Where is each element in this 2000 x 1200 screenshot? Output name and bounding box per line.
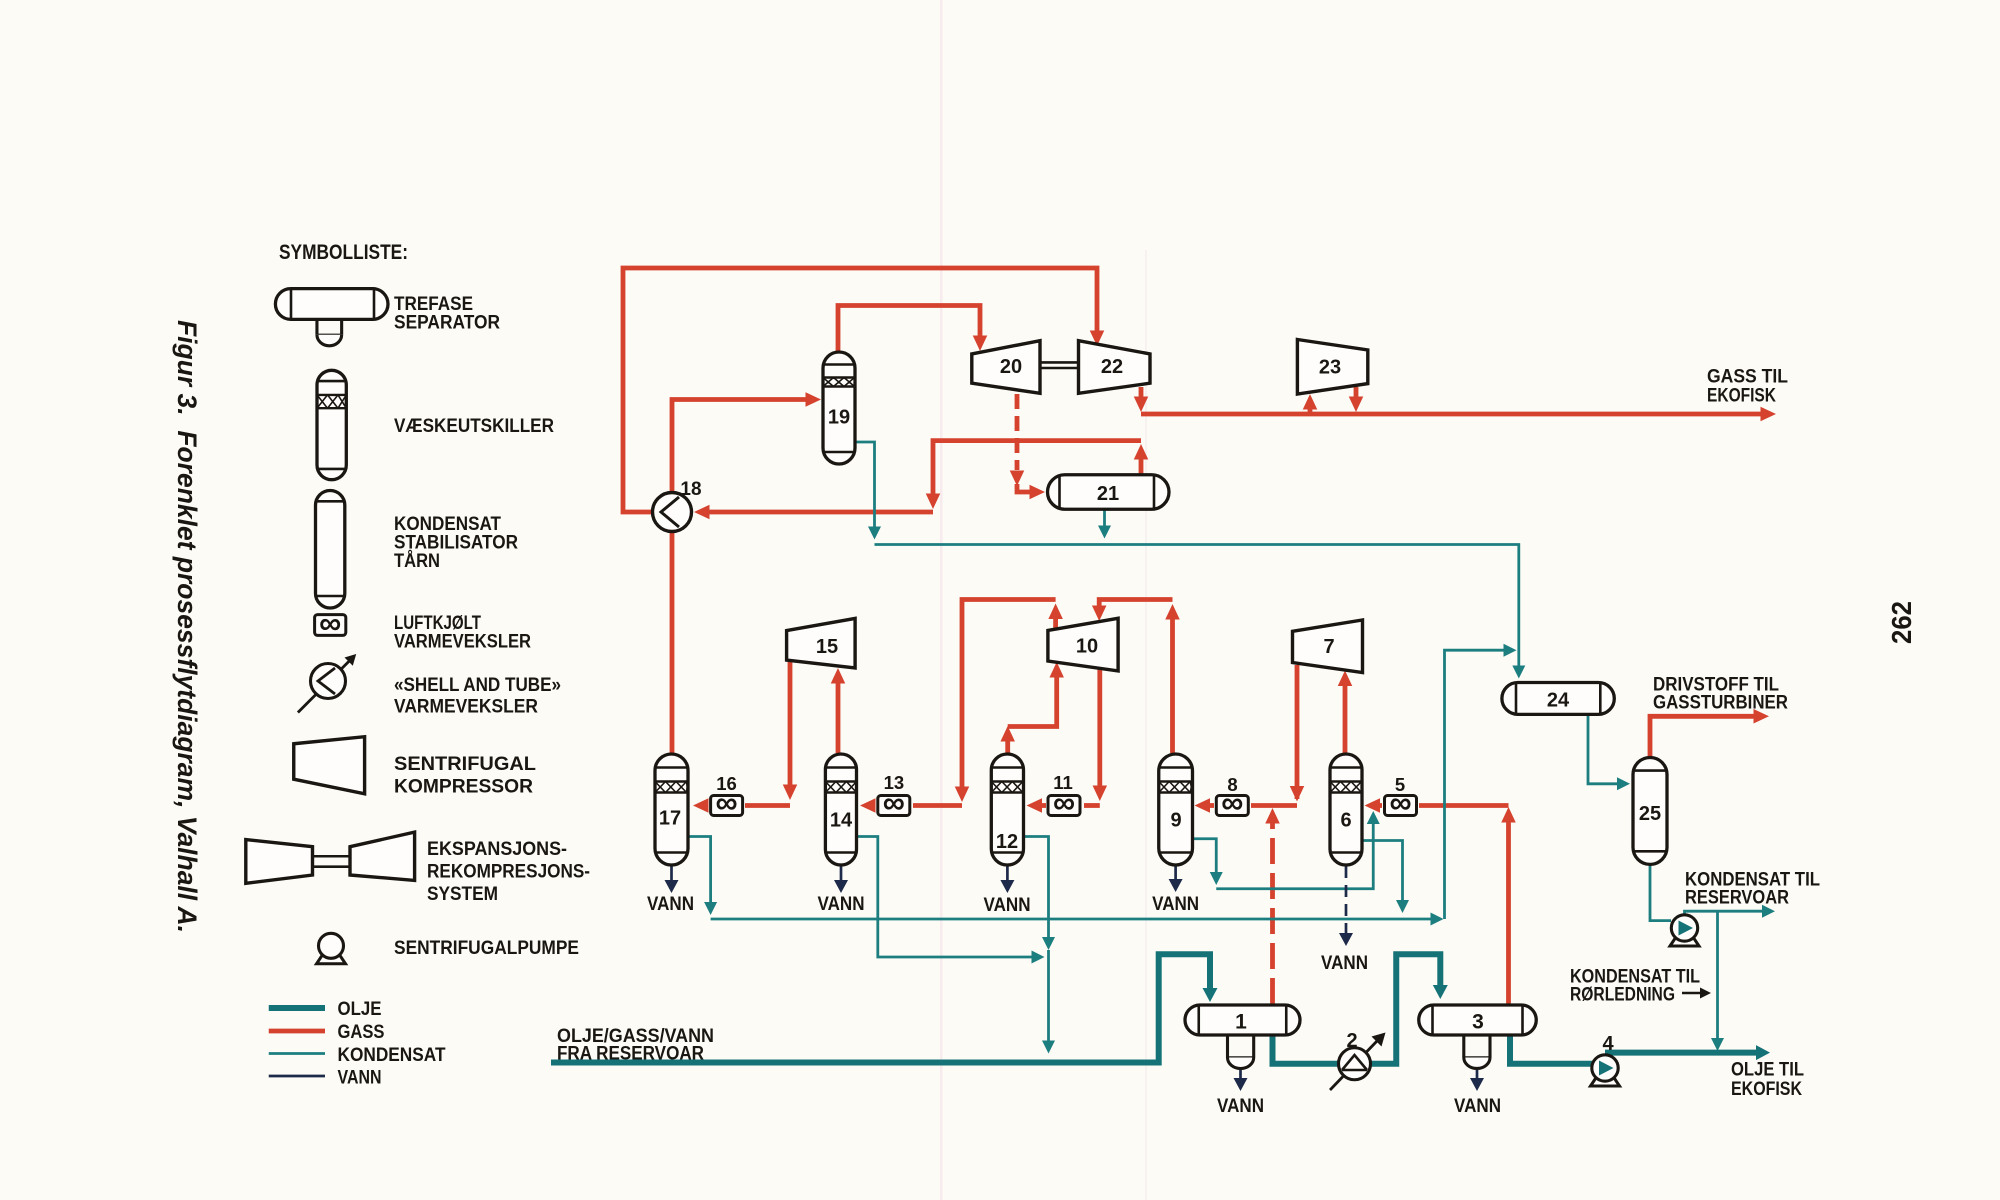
wire: condensate header under scrubbers bbox=[711, 644, 1517, 926]
expander 20 bbox=[972, 341, 1040, 394]
wire: separator 3 oil to pump 4 bbox=[1510, 1036, 1593, 1064]
wire: compressor 10 discharge through cooler 13 to vessel 14 bbox=[860, 600, 1063, 813]
compressor 15 bbox=[787, 618, 856, 668]
svg-text:1: 1 bbox=[1235, 1011, 1247, 1034]
svg-text:SEPARATOR: SEPARATOR bbox=[394, 313, 500, 334]
wire: vessel 24 condensate to vessel 25 bbox=[1588, 714, 1630, 790]
svg-text:4: 4 bbox=[1602, 1033, 1614, 1055]
svg-text:25: 25 bbox=[1639, 803, 1661, 825]
wire: vessel 9 condensate drain to vessel 6 inlet bbox=[1193, 811, 1380, 889]
wire: vessel 9 water outlet bbox=[1169, 865, 1183, 892]
svg-text:KOMPRESSOR: KOMPRESSOR bbox=[394, 777, 533, 798]
wire: separator 3 water outlet bbox=[1470, 1068, 1484, 1091]
wire: vessel 17 water outlet bbox=[665, 864, 679, 893]
wire: gas riser vessel 19 to expander 20 bbox=[838, 306, 987, 353]
wire: condensate header to vessel 24 bbox=[875, 545, 1526, 679]
wire: vessel 6 condensate drain to header bbox=[1362, 841, 1409, 914]
svg-text:8: 8 bbox=[1227, 774, 1237, 795]
svg-text:RØRLEDNING: RØRLEDNING bbox=[1570, 985, 1675, 1006]
label VAESKEUTSKILLER bbox=[394, 416, 554, 437]
svg-text:13: 13 bbox=[884, 772, 905, 793]
shaft 20-22 bbox=[1040, 362, 1079, 368]
svg-text:SENTRIFUGAL: SENTRIFUGAL bbox=[394, 754, 536, 775]
wire: compressor 15 discharge through cooler 16 to vessel 17 bbox=[693, 662, 797, 813]
wire: gas exchanger 18 bottom to vessel 17 bbox=[670, 531, 675, 753]
air cooler 11 bbox=[1048, 772, 1080, 820]
legend title SYMBOLLISTE bbox=[279, 241, 408, 264]
wire: vessel 21 vapour to exchanger 18 bbox=[694, 441, 1148, 520]
vessel 14 bbox=[825, 754, 856, 865]
wire: GASS legend line bbox=[269, 1029, 325, 1034]
label VANN under separator 1 bbox=[1217, 1095, 1264, 1117]
svg-text:VARMEVEKSLER: VARMEVEKSLER bbox=[394, 697, 538, 718]
svg-text:5: 5 bbox=[1395, 774, 1405, 795]
wire: KONDENSAT legend line bbox=[269, 1052, 325, 1055]
wire: vessel 25 fuel gas to gas turbines bbox=[1650, 709, 1769, 757]
svg-text:TÅRN: TÅRN bbox=[394, 551, 440, 572]
svg-text:2: 2 bbox=[1346, 1030, 1357, 1052]
wire: recompressor 22 outlet gas header to Ekofisk bbox=[1134, 387, 1776, 421]
svg-text:SYMBOLLISTE:: SYMBOLLISTE: bbox=[279, 241, 408, 264]
label KONDENSAT bbox=[338, 1045, 446, 1066]
svg-text:11: 11 bbox=[1053, 772, 1073, 793]
legend symbol: luftkjoelt varmeveksler bbox=[315, 605, 346, 640]
svg-text:VANN: VANN bbox=[1152, 893, 1199, 915]
svg-text:VANN: VANN bbox=[1217, 1095, 1264, 1117]
svg-text:REKOMPRESJONS-: REKOMPRESJONS- bbox=[427, 862, 590, 883]
svg-text:16: 16 bbox=[716, 773, 737, 794]
svg-text:FRA RESERVOAR: FRA RESERVOAR bbox=[557, 1044, 704, 1065]
legend symbol: sentrifugalpumpe bbox=[317, 933, 346, 964]
wire: gas from exchanger 18 to recompressor 22 (top loop) bbox=[623, 268, 1104, 512]
wire: vessel 6 water outlet (dashed) bbox=[1339, 866, 1353, 946]
svg-text:RESERVOAR: RESERVOAR bbox=[1685, 888, 1789, 909]
label KONDENSAT STABILISATOR TAARN bbox=[394, 514, 518, 572]
wire: vessel 6 vapour riser to compressor 7 bbox=[1338, 671, 1353, 754]
svg-text:GASS TIL: GASS TIL bbox=[1707, 367, 1788, 388]
svg-text:VARMEVEKSLER: VARMEVEKSLER bbox=[394, 632, 531, 653]
svg-text:10: 10 bbox=[1076, 636, 1098, 658]
svg-text:15: 15 bbox=[816, 636, 838, 658]
label KONDENSAT TIL RESERVOAR bbox=[1685, 870, 1820, 909]
svg-text:KONDENSAT: KONDENSAT bbox=[338, 1045, 446, 1066]
label OLJE bbox=[338, 999, 382, 1020]
label EKSPANSJONS-REKOMPRESJONS-SYSTEM bbox=[427, 839, 590, 905]
page number 262 bbox=[1886, 601, 1917, 644]
legend symbol: vaeskeutskiller bbox=[317, 370, 346, 479]
label LUFTKJOELT VARMEVEKSLER bbox=[394, 613, 531, 653]
svg-text:262: 262 bbox=[1886, 601, 1917, 644]
vessel 19 bbox=[823, 352, 855, 464]
svg-text:18: 18 bbox=[680, 479, 701, 500]
wire: vessel 14 water outlet bbox=[834, 864, 848, 893]
label OLJE/GASS/VANN FRA RESERVOAR bbox=[557, 1026, 714, 1065]
pump 4 bbox=[1591, 1033, 1620, 1086]
compressor 23 bbox=[1297, 340, 1367, 395]
label DRIVSTOFF TIL GASSTURBINER bbox=[1653, 675, 1788, 714]
air cooler 13 bbox=[878, 772, 910, 820]
svg-text:VANN: VANN bbox=[984, 894, 1031, 916]
wire: oil/gas/water feed from reservoir to separator 1 bbox=[551, 954, 1218, 1062]
wire: compressor 7 discharge through cooler 8 to vessel 9 bbox=[1195, 665, 1305, 813]
svg-text:22: 22 bbox=[1101, 356, 1123, 378]
wire: expander 20 outlet to vessel 21 (dashed) bbox=[1010, 394, 1045, 499]
label VANN under vessel 12 bbox=[984, 894, 1031, 916]
svg-text:12: 12 bbox=[996, 831, 1018, 853]
wire: vessel 21 condensate drain bbox=[1098, 509, 1111, 539]
svg-text:«SHELL AND TUBE»: «SHELL AND TUBE» bbox=[394, 675, 561, 696]
exchanger 2 bbox=[1330, 1030, 1386, 1090]
svg-text:21: 21 bbox=[1097, 483, 1119, 505]
wire: vessel 14 condensate drain bbox=[857, 837, 1045, 964]
svg-text:14: 14 bbox=[830, 810, 853, 832]
svg-text:7: 7 bbox=[1323, 636, 1334, 658]
separator 1 bbox=[1185, 1005, 1300, 1069]
svg-text:23: 23 bbox=[1319, 357, 1341, 379]
legend symbol: trefase separator bbox=[275, 289, 388, 346]
label SENTRIFUGALPUMPE bbox=[394, 938, 579, 959]
wire: OLJE legend line bbox=[269, 1005, 325, 1011]
svg-text:6: 6 bbox=[1340, 810, 1351, 832]
wire: vessel 17 condensate drain to header bbox=[688, 837, 717, 916]
wire: VANN legend line bbox=[269, 1075, 325, 1078]
svg-text:19: 19 bbox=[828, 407, 850, 429]
legend symbol: shell and tube varmeveksler bbox=[298, 654, 356, 713]
label VANN under vessel 14 bbox=[818, 893, 865, 915]
svg-text:VANN: VANN bbox=[338, 1068, 382, 1089]
svg-text:SYSTEM: SYSTEM bbox=[427, 884, 498, 905]
wire: vessel 19 condensate drain to condensate header bbox=[855, 442, 881, 540]
vessel 6 bbox=[1330, 754, 1362, 865]
label VANN under vessel 17 bbox=[647, 893, 694, 915]
wire: vessel 9 vapour to compressor 10 suction bbox=[1092, 600, 1180, 754]
label KONDENSAT TIL ROERLEDNING bbox=[1570, 967, 1711, 1006]
wire: vessel 14 vapour riser to compressor 15 bbox=[831, 668, 846, 753]
label GASS TIL EKOFISK bbox=[1707, 367, 1788, 407]
wire: separator 1 oil through exchanger 2 to separator 3 bbox=[1273, 954, 1448, 1064]
wire: condensate to pipeline branch joining oil line bbox=[1711, 911, 1724, 1051]
caption Figur 3 bbox=[172, 320, 202, 933]
wire: vessel 12 water outlet bbox=[1000, 864, 1014, 893]
vessel 25 bbox=[1633, 758, 1667, 865]
svg-text:Figur 3. Forenklet prosessfly: Figur 3. Forenklet prosessflytdiagram, V… bbox=[172, 320, 202, 933]
vessel 17 bbox=[655, 754, 688, 865]
svg-text:VANN: VANN bbox=[818, 893, 865, 915]
svg-text:EKSPANSJONS-: EKSPANSJONS- bbox=[427, 839, 567, 860]
label VANN under separator 3 bbox=[1454, 1095, 1501, 1117]
compressor 10 bbox=[1048, 618, 1118, 671]
wire: separator 1 water outlet bbox=[1234, 1068, 1248, 1091]
svg-text:VANN: VANN bbox=[647, 893, 694, 915]
legend symbol: kondensat stabilisator taarn bbox=[316, 491, 345, 609]
label SENTRIFUGAL KOMPRESSOR bbox=[394, 754, 536, 798]
recompressor 22 bbox=[1079, 341, 1151, 394]
wire: vessel 12 condensate drain to feed line bbox=[1024, 837, 1056, 1054]
wire: vessel 12 vapour riser to compressor 10 bbox=[1000, 662, 1063, 753]
label VANN under vessel 6 bbox=[1321, 952, 1368, 974]
compressor 7 bbox=[1293, 620, 1363, 673]
air cooler 16 bbox=[711, 773, 743, 820]
wire: compressor 23 outlet down to gas header bbox=[1349, 387, 1364, 412]
wire: gas header tap up to compressor 23 bbox=[1303, 394, 1318, 414]
legend symbol: ekspansjons-rekompresjons-system bbox=[246, 832, 415, 883]
vessel 9 bbox=[1159, 754, 1193, 865]
svg-text:17: 17 bbox=[659, 808, 681, 830]
wire: vessel 3 gas riser through cooler 5 to vessel 6 bbox=[1365, 798, 1516, 1004]
svg-text:OLJE: OLJE bbox=[338, 999, 382, 1020]
svg-text:3: 3 bbox=[1472, 1011, 1484, 1034]
separator 3 bbox=[1419, 1005, 1537, 1068]
label OLJE TIL EKOFISK bbox=[1731, 1060, 1804, 1101]
wire: oil from pump 4 to Ekofisk bbox=[1605, 1045, 1770, 1060]
svg-text:GASSTURBINER: GASSTURBINER bbox=[1653, 693, 1788, 714]
svg-text:24: 24 bbox=[1547, 690, 1570, 712]
air cooler 5 bbox=[1385, 774, 1417, 820]
svg-text:SENTRIFUGALPUMPE: SENTRIFUGALPUMPE bbox=[394, 938, 579, 959]
svg-text:VANN: VANN bbox=[1454, 1095, 1501, 1117]
wire: vessel 25 bottoms to condensate pump bbox=[1650, 864, 1671, 921]
exchanger 18 bbox=[653, 479, 702, 532]
svg-text:VÆSKEUTSKILLER: VÆSKEUTSKILLER bbox=[394, 416, 554, 437]
svg-text:9: 9 bbox=[1170, 810, 1181, 832]
wire: vessel 1 gas riser to cooler 8 line (dashed) bbox=[1265, 808, 1280, 1004]
wire: compressor 10 interstage through cooler 11 to vessel 12 bbox=[1027, 669, 1108, 813]
air cooler 8 bbox=[1216, 774, 1248, 820]
svg-text:VANN: VANN bbox=[1321, 952, 1368, 974]
label SHELL AND TUBE VARMEVEKSLER bbox=[394, 675, 561, 718]
svg-text:OLJE TIL: OLJE TIL bbox=[1731, 1060, 1804, 1081]
vessel 12 bbox=[991, 754, 1023, 865]
label TREFASE SEPARATOR bbox=[394, 294, 500, 334]
legend symbol: sentrifugal kompressor bbox=[294, 737, 365, 794]
label VANN legend bbox=[338, 1068, 382, 1089]
wire: gas inlet to vessel 19 from exchanger 18 bbox=[672, 392, 821, 492]
label VANN under vessel 9 bbox=[1152, 893, 1199, 915]
vessel 24 bbox=[1502, 683, 1614, 715]
svg-text:EKOFISK: EKOFISK bbox=[1707, 386, 1776, 407]
svg-text:20: 20 bbox=[1000, 356, 1022, 378]
svg-text:∞: ∞ bbox=[319, 605, 341, 640]
label GASS bbox=[338, 1022, 385, 1043]
svg-text:GASS: GASS bbox=[338, 1022, 385, 1043]
wire: condensate pump to reservoir bbox=[1685, 905, 1776, 918]
svg-text:EKOFISK: EKOFISK bbox=[1731, 1079, 1802, 1100]
vessel 21 bbox=[1048, 475, 1170, 510]
condensate pump bbox=[1670, 915, 1699, 946]
